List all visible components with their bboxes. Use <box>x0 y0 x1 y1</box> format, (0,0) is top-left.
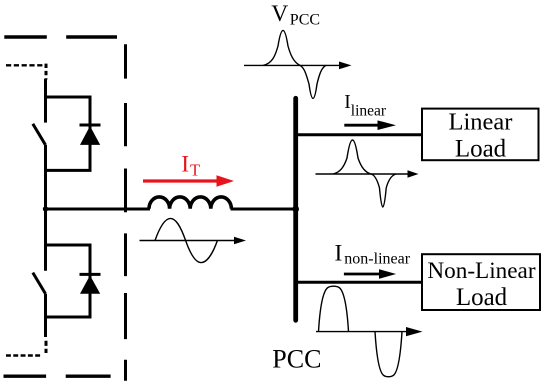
svg-text:Non-Linear: Non-Linear <box>427 258 535 284</box>
svg-text:T: T <box>190 161 200 180</box>
svg-text:Linear: Linear <box>449 109 513 136</box>
svg-text:linear: linear <box>351 102 387 119</box>
svg-text:I: I <box>181 152 189 178</box>
svg-text:V: V <box>271 1 288 27</box>
svg-text:non-linear: non-linear <box>344 251 410 268</box>
svg-text:PCC: PCC <box>290 12 320 29</box>
svg-text:PCC: PCC <box>272 344 321 373</box>
svg-text:I: I <box>335 241 343 267</box>
svg-text:Load: Load <box>456 284 508 311</box>
svg-text:Load: Load <box>455 136 507 163</box>
